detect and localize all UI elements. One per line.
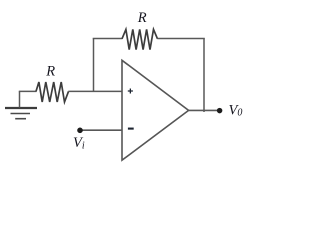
wire output bbox=[189, 109, 220, 111]
wire feedback left vertical bbox=[93, 39, 95, 92]
node Vo bbox=[217, 108, 223, 114]
svg-text:R: R bbox=[137, 10, 147, 26]
wire inverting input bbox=[80, 129, 122, 131]
wire from resistor R1 to op-amp + input bbox=[68, 90, 122, 92]
svg-text:Vi: Vi bbox=[73, 135, 85, 152]
wire ground stub bbox=[19, 91, 21, 107]
wire feedback top-left segment bbox=[93, 38, 123, 40]
resistor R2 (feedback) bbox=[122, 29, 158, 49]
node Vi bbox=[77, 128, 83, 134]
svg-text:V0: V0 bbox=[229, 102, 243, 118]
wire feedback top-right segment bbox=[157, 38, 205, 40]
svg-text:R: R bbox=[45, 64, 55, 80]
ground bbox=[5, 108, 37, 119]
wire from ground to resistor R1 bbox=[19, 90, 37, 92]
op-amp U1 bbox=[122, 60, 189, 160]
resistor R1 bbox=[36, 82, 69, 102]
wire feedback right vertical bbox=[203, 39, 205, 113]
